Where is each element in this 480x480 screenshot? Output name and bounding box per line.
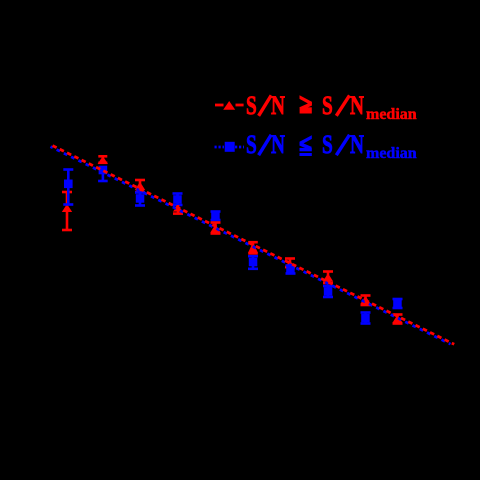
group5 red triangle [210, 224, 220, 232]
legend red slash 2 [336, 95, 349, 115]
group10 red error bar [393, 315, 403, 324]
group10 blue error bar [393, 299, 403, 308]
group4 blue error bar [173, 194, 183, 206]
group6 blue error bar [248, 256, 258, 269]
legend blue slash 1 [259, 135, 272, 155]
legend blue dotted line sample [215, 146, 245, 149]
group5 blue error bar [211, 212, 221, 221]
group5 blue square [211, 212, 220, 221]
legend red slash 1 [259, 95, 272, 115]
group8 red error bar [323, 272, 333, 284]
legend blue square [225, 142, 235, 152]
group4 blue square [173, 195, 182, 204]
legend blue less-equal symbol [300, 135, 312, 156]
group2 blue error bar [98, 168, 108, 181]
group8 blue square [324, 287, 333, 296]
group4 red triangle [173, 206, 183, 212]
group2 red triangle [98, 156, 108, 164]
group1 red triangle [62, 204, 72, 212]
group3 blue error bar [135, 193, 145, 206]
group9 red error bar [361, 296, 371, 306]
group4 red error bar [173, 205, 183, 214]
group5 red error bar [211, 223, 221, 234]
group9 red triangle [360, 296, 370, 304]
legend blue slash 2 [336, 135, 349, 155]
legend blue text S/N <= S/N_median [246, 129, 257, 160]
group9 blue error bar [361, 313, 371, 324]
legend red triangle [223, 101, 235, 110]
group3 red error bar [135, 180, 145, 192]
group1 red error bar [62, 192, 72, 230]
group1 blue square [64, 180, 73, 189]
group10 blue square [393, 299, 402, 308]
group3 blue square [136, 194, 145, 203]
legend red text S/N >= S/N_median [246, 90, 257, 121]
group7 blue error bar [286, 266, 296, 274]
group6 blue square [249, 258, 257, 267]
group7 blue square [286, 266, 295, 275]
blue dotted fit line [51, 147, 451, 345]
red dashed fit line [53, 146, 455, 345]
group10 red triangle [392, 315, 402, 323]
group6 red error bar [248, 242, 258, 254]
group6 red triangle [248, 242, 258, 252]
legend red dashed line sample [215, 104, 244, 107]
group7 red error bar [285, 259, 295, 268]
group8 red triangle [323, 273, 333, 281]
group1 blue error bar [63, 170, 73, 205]
group9 blue square [361, 314, 370, 323]
group7 red triangle [285, 260, 295, 268]
legend red greater-equal symbol [300, 95, 312, 113]
group3 red triangle [135, 182, 145, 190]
group8 blue error bar [323, 286, 333, 297]
group2 blue square [99, 166, 108, 175]
group2 red error bar [98, 156, 107, 163]
